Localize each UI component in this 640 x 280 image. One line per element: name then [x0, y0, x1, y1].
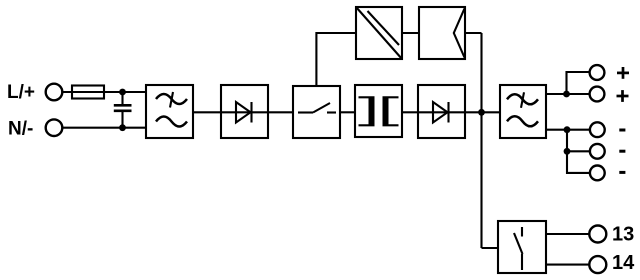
wire bus to relay: [482, 247, 499, 249]
terminal minus 1: [590, 122, 605, 137]
label minus 1: [619, 129, 625, 132]
label plus 2: [617, 90, 629, 102]
node plus junction: [563, 91, 570, 98]
bus wire vertical: [480, 33, 482, 248]
DC/DC converter U1: [356, 7, 402, 59]
fuse F1: [72, 86, 104, 99]
wire minus output: [546, 130, 590, 173]
wire contact 14: [546, 264, 589, 266]
svg-text:14: 14: [612, 252, 635, 274]
terminal plus 2: [590, 87, 605, 102]
junction input top: [119, 89, 126, 96]
terminal 14: [589, 256, 606, 273]
junction input bottom: [119, 124, 126, 131]
node main bus junction: [478, 109, 485, 116]
terminal plus 1: [590, 65, 605, 80]
node minus junction 2: [564, 148, 571, 155]
terminal 13: [589, 226, 606, 243]
label 13: [612, 224, 634, 246]
wire transformer to D2: [402, 111, 418, 113]
label plus 1: [617, 67, 629, 79]
label minus 2: [619, 150, 625, 153]
output rectifier D2: [418, 85, 465, 138]
terminal N/-: [46, 119, 63, 136]
terminal minus 3: [590, 166, 605, 181]
wire switch to transformer: [340, 111, 355, 113]
terminal L/+: [46, 84, 63, 101]
wire regulator to bus: [465, 32, 482, 34]
output filter block: [500, 85, 546, 138]
wire contact 13: [546, 233, 589, 235]
svg-text:N/-: N/-: [8, 119, 33, 140]
relay contact K1: [498, 221, 546, 273]
label L/+: [7, 82, 35, 103]
wire control switch to DC/DC: [316, 33, 356, 86]
label minus 3: [619, 171, 625, 174]
capacitor C1: [114, 92, 132, 128]
regulator U2: [419, 7, 465, 59]
wire L input: [62, 91, 146, 93]
wire D2 to output filter: [465, 111, 500, 113]
wire U1 to U2: [402, 32, 419, 34]
input filter block: [146, 85, 193, 138]
switching stage S1: [293, 86, 340, 138]
rectifier D1: [221, 85, 268, 138]
terminal minus 2: [590, 144, 605, 159]
svg-text:13: 13: [612, 224, 634, 246]
node minus junction 1: [564, 126, 571, 133]
wire plus output: [546, 72, 590, 94]
label 14: [612, 252, 635, 274]
wire filter to rectifier: [193, 111, 221, 113]
wire rectifier to switch: [268, 111, 293, 113]
wire N input: [62, 127, 146, 129]
label N/-: [8, 119, 33, 140]
transformer T1: [355, 85, 402, 137]
svg-text:L/+: L/+: [7, 82, 35, 103]
